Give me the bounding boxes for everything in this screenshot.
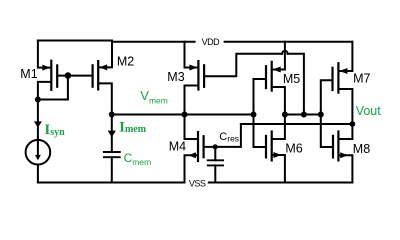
- wire Cres top plate lead: [214, 147, 216, 160]
- transistor M3 gate bar: [203, 64, 205, 88]
- transistor M6 gate bar: [265, 135, 267, 159]
- transistor M8 channel bar: [337, 130, 339, 161]
- current source Isyn circle: [26, 140, 51, 165]
- wire M2 source from VDD: [100, 42, 113, 68]
- wire Cres bottom plate to VSS rail: [214, 165, 216, 182]
- transistor M5 channel bar: [271, 61, 273, 92]
- junction dot node X at M3 gate riser: [301, 112, 307, 118]
- junction dot Vout feedback tap: [350, 121, 356, 127]
- wire Cres node to Vout line riser: [216, 124, 241, 147]
- wire VSS rail left segment: [38, 182, 185, 184]
- svg-text:M6: M6: [285, 141, 302, 155]
- junction dot Vmem at M3 M4 drains: [182, 112, 188, 118]
- wire VDD rail left segment: [38, 40, 112, 42]
- transistor M7 channel bar: [337, 62, 339, 94]
- arrow Imem current direction: [108, 131, 116, 138]
- svg-text:M3: M3: [167, 70, 184, 84]
- transistor M4 gate bar: [203, 135, 205, 158]
- svg-text:Isyn: Isyn: [44, 122, 65, 138]
- wire Vout feedback line: [241, 123, 353, 125]
- transistor M6 channel bar: [271, 130, 273, 161]
- svg-text:Cmem: Cmem: [124, 151, 152, 167]
- wire M7 drain to Vout to M8 drain: [338, 89, 352, 139]
- wire second rail hop over M5 source: [282, 51, 288, 54]
- wire M1-M2 gate net: [57, 75, 92, 77]
- current source Isyn inner arrow head: [35, 155, 41, 161]
- arrow M6 source (NFET): [274, 152, 282, 158]
- wire M5 gate to M6 gate riser: [254, 79, 267, 147]
- wire M5 source from VDD: [273, 42, 285, 70]
- arrow M5 source (PFET): [273, 67, 281, 73]
- arrow M7 source (PFET): [339, 68, 347, 74]
- wire M3 source from VDD: [185, 42, 198, 68]
- svg-text:M4: M4: [169, 140, 186, 154]
- wire VSS rail right segment: [209, 182, 353, 184]
- transistor M2 channel bar: [97, 60, 99, 91]
- junction dot M1 M2 gate node: [65, 72, 72, 79]
- wire VDD rail left segment after step: [112, 41, 195, 43]
- current source Isyn inner arrow shaft: [37, 140, 39, 157]
- svg-text:Imem: Imem: [119, 119, 147, 135]
- wire M1 source from VDD: [38, 41, 50, 68]
- wire M4 source to VSS rail: [185, 155, 198, 182]
- transistor M8 gate bar: [332, 135, 334, 159]
- svg-text:M1: M1: [20, 67, 37, 81]
- wire node X line: [285, 114, 321, 116]
- wire second rail right end down to node X: [288, 54, 304, 115]
- wire Imem branch down to Cmem: [111, 115, 113, 153]
- arrow M2 source (PFET): [99, 64, 107, 70]
- wire M2 drain to Vmem: [98, 83, 112, 114]
- wire Isyn node down to current source: [37, 100, 39, 140]
- arrow M8 source (NFET): [340, 152, 348, 158]
- wire M5 drain to M6 drain riser: [272, 87, 285, 139]
- arrow M1 source (PFET): [42, 65, 50, 71]
- svg-text:Cres: Cres: [219, 131, 239, 144]
- junction dot Isyn input node: [35, 97, 41, 103]
- svg-text:M2: M2: [117, 54, 134, 68]
- wire M7 source from VDD: [340, 42, 353, 71]
- wire M3 gate lead to second rail: [204, 54, 282, 76]
- wire Vmem node line: [112, 114, 254, 116]
- junction dot node X at M7 M8 gates: [318, 112, 324, 118]
- arrow M4 source (NFET): [188, 152, 196, 158]
- capacitor Cres plates: [207, 160, 224, 165]
- svg-text:M8: M8: [353, 142, 370, 156]
- transistor M5 gate bar: [265, 65, 267, 89]
- wire M7 gate to M8 gate riser: [321, 80, 333, 147]
- transistor M1 channel bar: [50, 60, 52, 91]
- svg-text:M5: M5: [283, 72, 300, 86]
- wire VDD rail right segment: [225, 41, 353, 43]
- wire M1 drain: [38, 82, 51, 100]
- transistor M7 gate bar: [331, 67, 333, 91]
- wire gate node down to Isyn node: [38, 76, 68, 100]
- svg-text:Vout: Vout: [356, 104, 382, 118]
- transistor M3 channel bar: [197, 60, 199, 91]
- wire M4 gate lead to Cres node: [204, 146, 216, 148]
- junction dot Vmem at M5 M6 gates: [251, 112, 257, 118]
- junction dot M4 gate Cres node: [213, 144, 218, 149]
- transistor M1 gate bar: [56, 64, 58, 88]
- junction dot Vmem at M2 drain: [109, 112, 115, 118]
- transistor M2 gate bar: [91, 64, 93, 88]
- wire current source to VSS rail corner: [37, 165, 39, 183]
- arrow M3 source (PFET): [189, 65, 197, 71]
- wire Cmem bottom to VSS rail: [111, 157, 113, 182]
- junction dot node X at M5 M6 drains: [282, 112, 288, 118]
- arrow Isyn current direction: [34, 121, 42, 127]
- wire M8 source to VSS rail: [339, 155, 352, 182]
- svg-text:VDD: VDD: [202, 37, 221, 47]
- transistor M4 channel bar: [197, 131, 199, 162]
- wire M3 drain / M4 drain riser: [185, 86, 199, 140]
- svg-text:Vmem: Vmem: [140, 88, 168, 105]
- wire M6 source to VSS rail: [273, 155, 285, 183]
- svg-text:M7: M7: [353, 71, 370, 85]
- capacitor Cmem plates: [103, 152, 121, 157]
- svg-text:VSS: VSS: [189, 179, 206, 189]
